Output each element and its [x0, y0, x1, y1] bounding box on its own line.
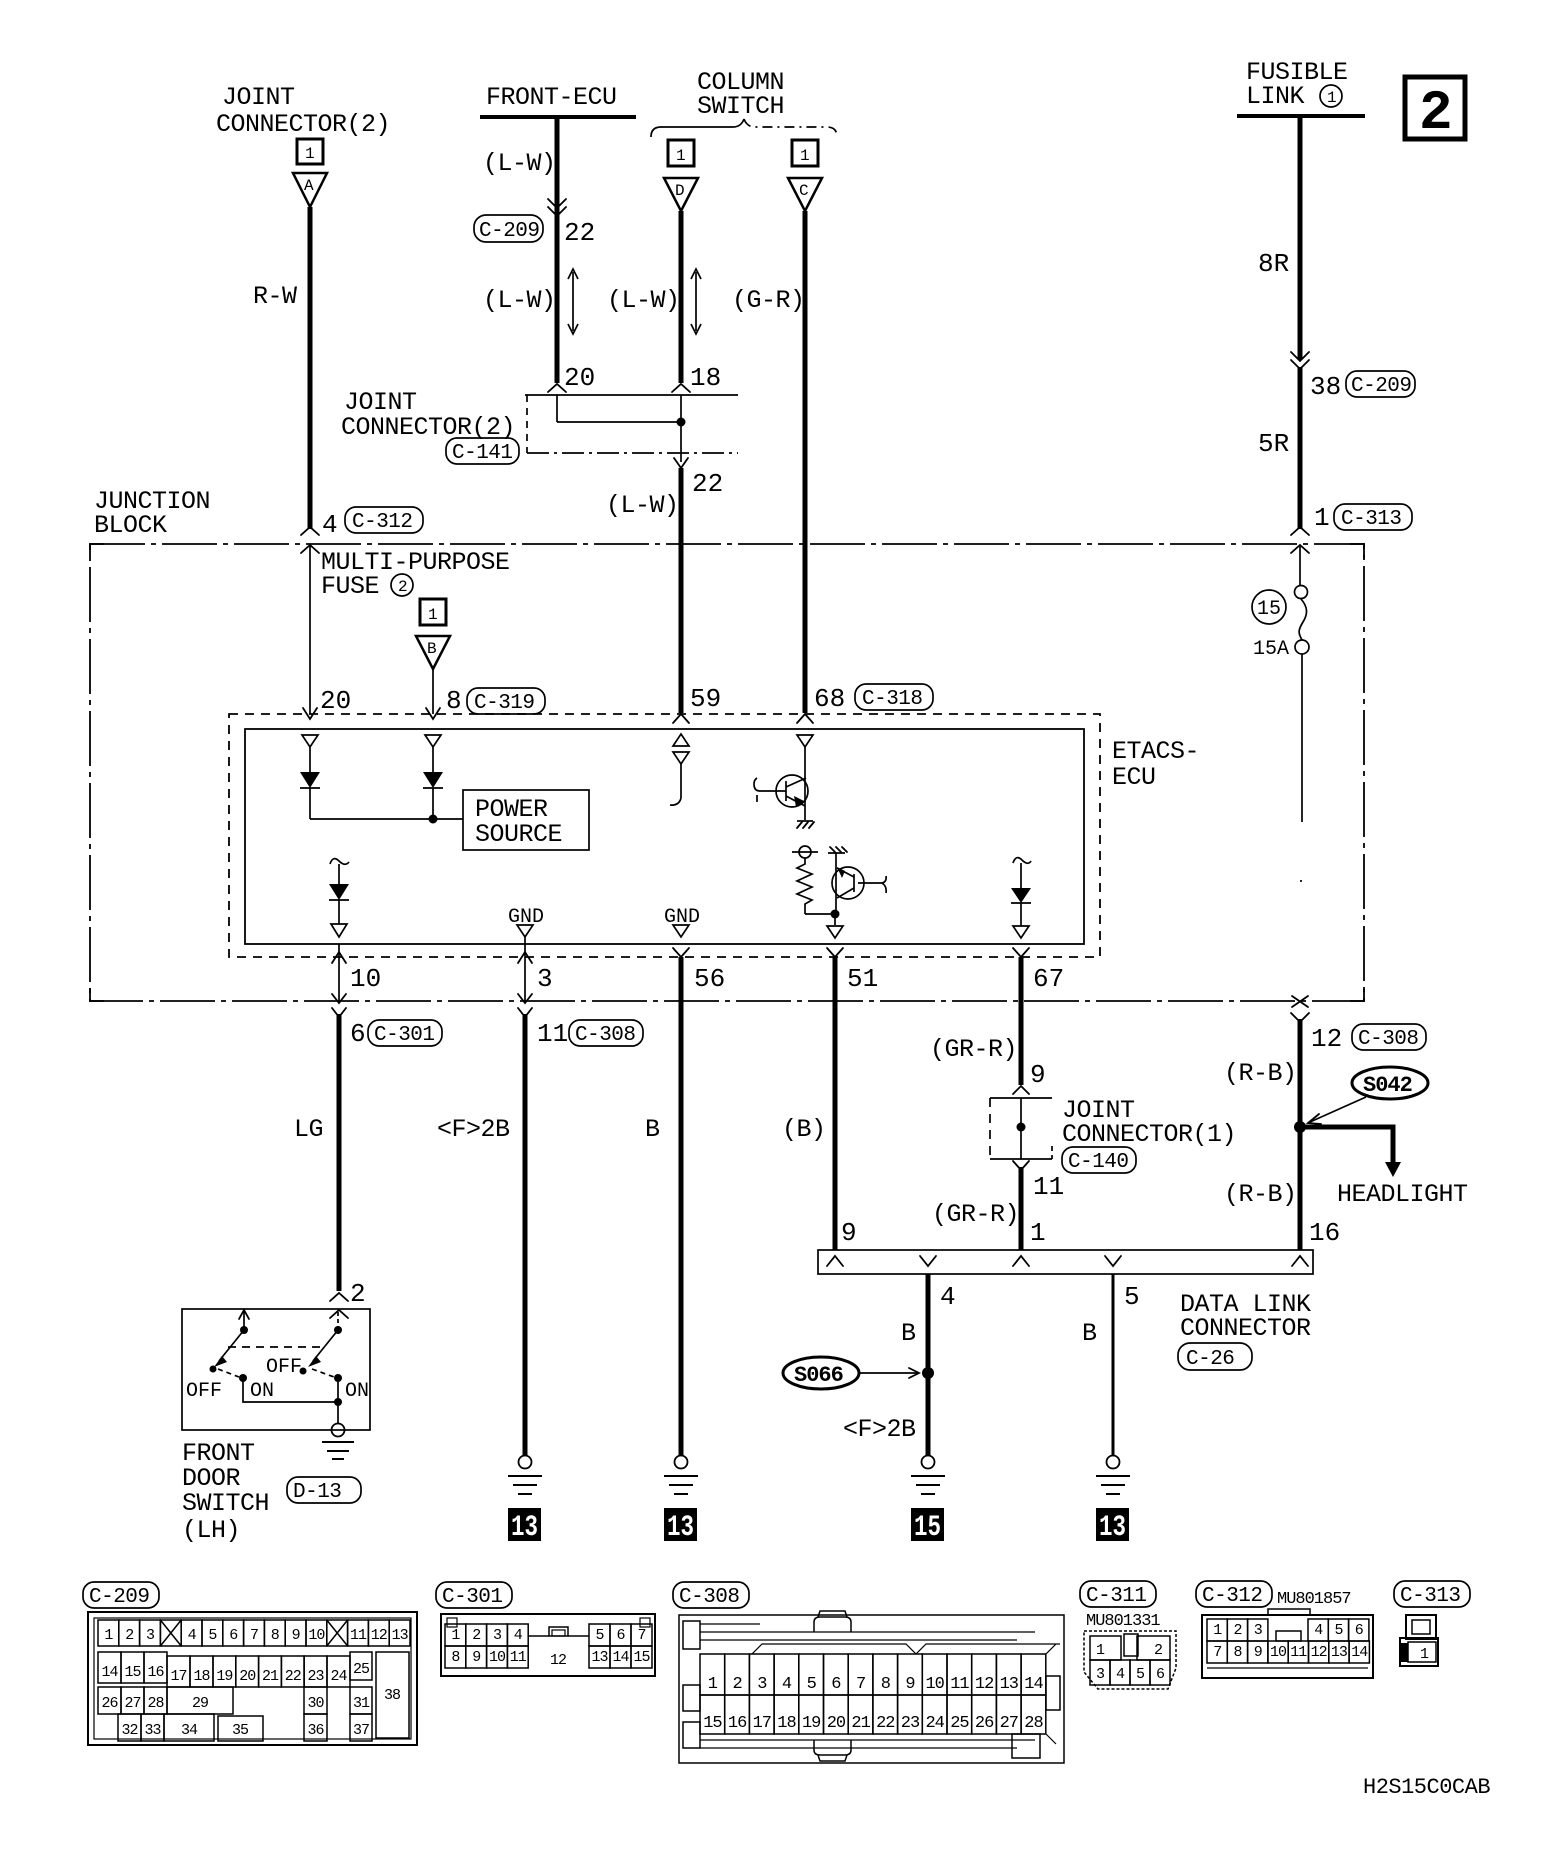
pin 8 arrow into ETACS — [426, 708, 440, 719]
circled 2 — [391, 574, 413, 596]
svg-text:1: 1 — [1213, 1622, 1222, 1639]
svg-text:3: 3 — [1254, 1622, 1263, 1639]
joint connector C-141 outline — [525, 394, 738, 396]
svg-text:4: 4 — [1116, 1666, 1125, 1683]
svg-text:MU801857: MU801857 — [1277, 1590, 1351, 1609]
right ON contact — [334, 1374, 342, 1382]
svg-text:C-209: C-209 — [89, 1586, 150, 1609]
svg-text:15: 15 — [703, 1714, 722, 1733]
diode D3 with hook — [330, 859, 349, 865]
svg-text:8: 8 — [1233, 1644, 1242, 1661]
pin 67 wire — [1013, 948, 1029, 957]
SEC:TOP — [216, 58, 1465, 713]
svg-text:ON: ON — [345, 1380, 369, 1403]
wire inside C-141 from pin 20 — [556, 395, 558, 422]
svg-text:5: 5 — [1136, 1666, 1145, 1683]
splice junction dot — [1294, 1121, 1306, 1133]
svg-text:4: 4 — [782, 1675, 792, 1694]
svg-text:2: 2 — [398, 578, 408, 596]
right OFF dashed contact — [312, 1369, 334, 1377]
wire 8R from fusible link — [1298, 116, 1303, 360]
svg-text:B: B — [645, 1115, 660, 1144]
svg-text:31: 31 — [353, 1695, 370, 1712]
svg-text:C-140: C-140 — [1068, 1151, 1129, 1174]
svg-text:9: 9 — [841, 1218, 857, 1248]
svg-text:14: 14 — [101, 1664, 118, 1681]
svg-text:11: 11 — [1290, 1644, 1307, 1661]
svg-text:6: 6 — [1355, 1622, 1364, 1639]
svg-text:OFF: OFF — [266, 1356, 302, 1379]
ground symbol pin 11 wire — [519, 1456, 532, 1469]
ground page ref 15 — [911, 1508, 944, 1541]
circled 1 after LINK — [1320, 85, 1342, 107]
ground page ref 13 — [508, 1508, 541, 1541]
svg-text:10: 10 — [350, 964, 381, 994]
wire R-W inside junction block down to ETACS pin 20 — [309, 545, 311, 714]
svg-text:SWITCH: SWITCH — [697, 92, 784, 121]
svg-text:7: 7 — [856, 1675, 865, 1694]
svg-text:33: 33 — [144, 1722, 161, 1739]
svg-text:(LH): (LH) — [182, 1516, 240, 1545]
junction dot in C-141 — [677, 418, 686, 427]
svg-text:2: 2 — [1233, 1622, 1241, 1639]
svg-text:28: 28 — [1024, 1714, 1043, 1733]
diode D1 — [309, 747, 311, 772]
svg-text:(L-W): (L-W) — [606, 491, 679, 520]
svg-text:29: 29 — [192, 1695, 208, 1712]
svg-text:CONNECTOR: CONNECTOR — [1180, 1314, 1311, 1343]
wire L-W from D — [679, 211, 684, 383]
left OFF dashed contact — [218, 1369, 239, 1377]
svg-text:11: 11 — [950, 1675, 969, 1694]
svg-text:CONNECTOR(1): CONNECTOR(1) — [1062, 1120, 1236, 1149]
svg-text:ECU: ECU — [1112, 763, 1156, 792]
svg-text:13: 13 — [1000, 1675, 1019, 1694]
svg-text:C-308: C-308 — [575, 1024, 636, 1047]
svg-text:28: 28 — [147, 1695, 164, 1712]
svg-text:B: B — [901, 1319, 916, 1348]
svg-text:SOURCE: SOURCE — [475, 820, 562, 849]
svg-text:27: 27 — [124, 1695, 140, 1712]
junction block outline — [90, 544, 1364, 1001]
svg-text:B: B — [1082, 1319, 1097, 1348]
SEC:SWITCH — [182, 1279, 370, 1545]
svg-text:C-141: C-141 — [452, 442, 513, 465]
svg-text:13: 13 — [1099, 1511, 1126, 1545]
svg-text:23: 23 — [307, 1668, 324, 1685]
svg-text:(GR-R): (GR-R) — [930, 1035, 1017, 1064]
svg-text:ETACS-: ETACS- — [1112, 737, 1199, 766]
svg-text:23: 23 — [901, 1714, 920, 1733]
connector C triangle — [788, 178, 822, 211]
wire R-B from 12 to data link — [1298, 1019, 1303, 1250]
svg-text:3: 3 — [146, 1627, 155, 1644]
svg-text:9: 9 — [292, 1627, 300, 1644]
svg-text:C-318: C-318 — [862, 688, 923, 711]
svg-text:C-209: C-209 — [1351, 375, 1412, 398]
bus wire inside C-141 — [557, 421, 681, 423]
svg-text:LG: LG — [294, 1115, 323, 1144]
svg-text:59: 59 — [690, 684, 721, 714]
svg-text:8: 8 — [271, 1627, 280, 1644]
internal bus to power source — [310, 818, 463, 820]
svg-text:14: 14 — [612, 1649, 629, 1666]
svg-text:C-313: C-313 — [1400, 1585, 1461, 1608]
connector pinout C-308 — [673, 1582, 1064, 1763]
svg-text:15: 15 — [914, 1511, 941, 1545]
svg-text:5: 5 — [1334, 1622, 1343, 1639]
data link connector bar — [818, 1250, 1313, 1274]
svg-text:19: 19 — [216, 1668, 232, 1685]
joint connector (1) C-140 box — [990, 1098, 1052, 1159]
svg-text:C-308: C-308 — [679, 1586, 740, 1609]
svg-text:13: 13 — [591, 1649, 608, 1666]
SEC:LOWER — [294, 1019, 1468, 1545]
svg-text:(G-R): (G-R) — [732, 286, 805, 315]
S066 splice oval — [783, 1357, 859, 1389]
left pole arrow up — [243, 1312, 245, 1330]
svg-text:5R: 5R — [1258, 429, 1289, 459]
svg-text:16: 16 — [1309, 1218, 1340, 1248]
left ON contact — [239, 1374, 247, 1382]
svg-text:12: 12 — [975, 1675, 993, 1694]
svg-text:10: 10 — [925, 1675, 944, 1694]
wire from B down to ETACS pin 8 — [432, 669, 434, 714]
svg-text:15: 15 — [124, 1664, 141, 1681]
svg-text:1: 1 — [800, 147, 810, 165]
svg-text:12: 12 — [1311, 1644, 1327, 1661]
svg-text:19: 19 — [802, 1714, 821, 1733]
svg-text:H2S15C0CAB: H2S15C0CAB — [1363, 1775, 1490, 1800]
pin 11 C-308 exit at junction block bottom — [518, 994, 532, 1017]
svg-text:26: 26 — [101, 1695, 118, 1712]
svg-text:C-312: C-312 — [352, 511, 413, 534]
svg-text:C-308: C-308 — [1358, 1028, 1419, 1051]
svg-text:25: 25 — [950, 1714, 969, 1733]
svg-text:(L-W): (L-W) — [483, 149, 556, 178]
svg-text:13: 13 — [511, 1511, 538, 1545]
Q2 chassis ground at top — [828, 852, 845, 854]
front door switch box — [182, 1309, 370, 1430]
connector crossing 1 C-313 at junction block top — [1291, 527, 1309, 553]
svg-text:7: 7 — [1213, 1644, 1221, 1661]
svg-text:C-301: C-301 — [442, 1586, 503, 1609]
svg-text:22: 22 — [876, 1714, 894, 1733]
svg-text:20: 20 — [239, 1668, 256, 1685]
svg-text:9: 9 — [905, 1675, 915, 1694]
transistor Q1 — [776, 775, 808, 807]
diode D4 with hook — [1013, 858, 1031, 864]
connector A terminal box — [297, 139, 323, 164]
svg-text:3: 3 — [1096, 1666, 1105, 1683]
svg-text:2: 2 — [732, 1675, 741, 1694]
right pole wire from pin 2 — [337, 1312, 339, 1330]
svg-text:2: 2 — [1154, 1642, 1162, 1659]
wire from ON contacts to common — [243, 1378, 338, 1402]
svg-text:56: 56 — [694, 964, 725, 994]
svg-text:25: 25 — [353, 1661, 370, 1678]
wire GR-R lower to data link — [1019, 1167, 1024, 1250]
svg-text:JOINT: JOINT — [222, 83, 295, 112]
svg-text:2: 2 — [472, 1627, 480, 1644]
double-ended arrow beside L-W wire — [568, 269, 578, 334]
page number 2 box — [1405, 77, 1465, 139]
svg-text:(L-W): (L-W) — [607, 286, 680, 315]
svg-text:(R-B): (R-B) — [1224, 1180, 1297, 1209]
svg-text:C-26: C-26 — [1186, 1348, 1234, 1371]
svg-text:36: 36 — [307, 1722, 324, 1739]
svg-text:(GR-R): (GR-R) — [932, 1200, 1019, 1229]
svg-text:13: 13 — [1331, 1644, 1348, 1661]
pin 3 wire — [524, 937, 526, 1001]
svg-text:5: 5 — [807, 1675, 817, 1694]
pin 59 internal symbols — [673, 734, 689, 746]
svg-text:<F>2B: <F>2B — [437, 1115, 510, 1144]
svg-text:14: 14 — [1351, 1644, 1368, 1661]
connector C-209 crossing on wire — [548, 199, 566, 216]
arrow out of C-141 — [674, 458, 688, 468]
power source box — [463, 790, 589, 850]
FRONT-ECU bus bar — [480, 115, 636, 119]
svg-text:6: 6 — [831, 1675, 841, 1694]
svg-text:(L-W): (L-W) — [483, 286, 556, 315]
pin 68 chevron — [797, 714, 813, 723]
svg-text:<F>2B: <F>2B — [843, 1415, 916, 1444]
svg-text:15: 15 — [1257, 598, 1281, 621]
svg-text:20: 20 — [564, 363, 595, 393]
wire R-W from A down to junction block — [308, 207, 313, 529]
headlight branch wire — [1300, 1127, 1393, 1162]
SEC:C141 — [341, 388, 738, 713]
svg-text:35: 35 — [232, 1722, 249, 1739]
S042 splice oval — [1352, 1067, 1428, 1099]
splice dot on pin 4 wire — [922, 1367, 934, 1379]
arrow from S066 to splice — [858, 1372, 917, 1374]
svg-text:C-209: C-209 — [479, 220, 540, 243]
wire G-R from C down to ETACS pin 68 — [803, 211, 808, 713]
svg-text:5: 5 — [208, 1627, 217, 1644]
fuse circuit: wire from 1 C-313 to fuse — [1299, 545, 1301, 586]
svg-text:8: 8 — [881, 1675, 891, 1694]
svg-text:18: 18 — [690, 363, 721, 393]
wire from fuse down (faded in scan) — [1301, 654, 1303, 822]
svg-text:1: 1 — [428, 606, 438, 624]
svg-text:9: 9 — [472, 1649, 480, 1666]
svg-text:15: 15 — [633, 1649, 650, 1666]
wire L-W from FRONT-ECU — [555, 117, 560, 383]
svg-text:32: 32 — [121, 1722, 137, 1739]
svg-text:27: 27 — [1000, 1714, 1018, 1733]
ETACS-ECU inner solid box — [245, 729, 1084, 944]
svg-text:17: 17 — [170, 1668, 186, 1685]
svg-text:38: 38 — [384, 1687, 401, 1704]
svg-text:22: 22 — [564, 218, 595, 248]
svg-text:3: 3 — [493, 1627, 502, 1644]
double-ended arrow beside D wire — [691, 269, 701, 334]
connector C-209 crossing (38) — [1291, 352, 1309, 369]
svg-text:C-312: C-312 — [1202, 1585, 1263, 1608]
svg-text:BLOCK: BLOCK — [94, 511, 167, 540]
svg-text:68: 68 — [814, 684, 845, 714]
circled 15 fuse number — [1252, 590, 1286, 624]
svg-text:D: D — [675, 182, 685, 200]
crossing at junction block bottom to pin 12 — [1292, 996, 1308, 1007]
connector pinout C-312 — [1196, 1581, 1373, 1678]
ETACS-ECU dashed box — [229, 714, 1100, 957]
left pole moving contact — [219, 1330, 244, 1361]
svg-text:24: 24 — [330, 1668, 347, 1685]
svg-text:7: 7 — [250, 1627, 258, 1644]
connector D terminal box — [668, 140, 694, 166]
connector D triangle — [664, 178, 698, 211]
ground symbol pin 5 wire — [1107, 1456, 1120, 1469]
svg-text:1: 1 — [1327, 89, 1337, 107]
ground page ref 13 — [1096, 1508, 1129, 1541]
svg-text:5: 5 — [595, 1627, 604, 1644]
svg-text:(B): (B) — [782, 1115, 826, 1144]
ground symbol pin 4 wire — [922, 1456, 935, 1469]
pin 51 wire — [827, 948, 843, 957]
svg-text:1: 1 — [451, 1627, 460, 1644]
svg-text:FUSE: FUSE — [321, 572, 379, 601]
svg-text:17: 17 — [753, 1714, 771, 1733]
svg-text:3: 3 — [537, 964, 553, 994]
pin 20 internal triangle — [302, 735, 318, 747]
svg-text:2: 2 — [1419, 81, 1453, 145]
svg-text:34: 34 — [181, 1722, 198, 1739]
svg-text:1: 1 — [305, 145, 315, 163]
svg-text:18: 18 — [777, 1714, 796, 1733]
connector pinout C-311 — [1080, 1581, 1176, 1689]
mechanical link dashed line — [228, 1346, 320, 1348]
svg-text:10: 10 — [308, 1627, 325, 1644]
svg-text:22: 22 — [285, 1668, 301, 1685]
right pole moving contact — [313, 1330, 338, 1361]
svg-text:B: B — [427, 640, 437, 658]
switch ground lines — [322, 1441, 354, 1443]
svg-text:16: 16 — [147, 1664, 164, 1681]
pin 56 wire — [673, 948, 689, 957]
svg-text:D-13: D-13 — [293, 1481, 341, 1504]
svg-text:A: A — [304, 177, 314, 195]
svg-text:14: 14 — [1024, 1675, 1043, 1694]
arrow from S042 to splice — [1310, 1097, 1366, 1122]
svg-text:MU801331: MU801331 — [1086, 1612, 1160, 1631]
wire from dot down through C-141 — [680, 395, 682, 462]
svg-text:S042: S042 — [1363, 1073, 1412, 1098]
svg-text:10: 10 — [1270, 1644, 1287, 1661]
svg-text:30: 30 — [307, 1695, 324, 1712]
svg-text:8: 8 — [446, 686, 462, 716]
switch ground circle on box edge — [332, 1424, 345, 1437]
svg-text:22: 22 — [692, 469, 723, 499]
svg-text:4: 4 — [322, 510, 338, 540]
connector A triangle — [293, 173, 327, 207]
svg-text:20: 20 — [827, 1714, 846, 1733]
svg-text:2: 2 — [350, 1279, 366, 1309]
svg-text:LINK: LINK — [1246, 82, 1305, 111]
pin 8 internal triangle — [425, 735, 441, 747]
svg-text:15A: 15A — [1253, 638, 1289, 661]
svg-text:6: 6 — [229, 1627, 238, 1644]
svg-text:6: 6 — [350, 1019, 366, 1049]
svg-text:24: 24 — [925, 1714, 944, 1733]
svg-text:13: 13 — [392, 1627, 409, 1644]
svg-text:ON: ON — [250, 1380, 274, 1403]
svg-text:11: 11 — [537, 1019, 568, 1049]
svg-text:4: 4 — [1314, 1622, 1323, 1639]
pin 59 chevron — [673, 714, 689, 723]
pin 10 wire and arrows — [338, 944, 340, 1001]
SEC:ETACS — [229, 714, 1199, 1455]
svg-text:11: 11 — [350, 1627, 367, 1644]
svg-text:CONNECTOR(2): CONNECTOR(2) — [216, 110, 390, 139]
svg-text:C-301: C-301 — [374, 1024, 435, 1047]
transistor Q2 — [832, 867, 864, 899]
svg-text:R-W: R-W — [253, 282, 297, 311]
svg-text:2: 2 — [125, 1627, 133, 1644]
svg-text:6: 6 — [616, 1627, 625, 1644]
brace under column switch — [651, 119, 744, 137]
pin 51 internal triangle — [834, 914, 836, 925]
svg-text:S066: S066 — [794, 1363, 843, 1388]
svg-text:12: 12 — [371, 1627, 387, 1644]
fuse symbol: two circles with S-curve — [1295, 586, 1308, 599]
svg-text:13: 13 — [667, 1511, 694, 1545]
svg-text:9: 9 — [1030, 1060, 1046, 1090]
fuse B triangle — [416, 636, 450, 669]
connector pinout C-301 — [436, 1582, 655, 1676]
svg-text:4: 4 — [940, 1282, 956, 1312]
svg-text:51: 51 — [847, 964, 878, 994]
wire L-W down to junction block — [679, 468, 684, 713]
svg-text:9: 9 — [1254, 1644, 1262, 1661]
svg-text:37: 37 — [353, 1722, 369, 1739]
svg-text:10: 10 — [489, 1649, 506, 1666]
svg-text:3: 3 — [757, 1675, 767, 1694]
svg-text:FRONT-ECU: FRONT-ECU — [486, 83, 617, 112]
svg-text:8: 8 — [451, 1649, 460, 1666]
svg-text:4: 4 — [188, 1627, 197, 1644]
Q1 chassis ground — [797, 820, 813, 822]
svg-text:1: 1 — [1096, 1642, 1105, 1659]
svg-text:OFF: OFF — [186, 1380, 222, 1403]
svg-text:6: 6 — [1156, 1666, 1165, 1683]
SEC:JB — [90, 487, 1426, 1054]
svg-text:SWITCH: SWITCH — [182, 1489, 269, 1518]
connector crossing 4 C-312 at junction block top — [301, 527, 319, 553]
svg-text:26: 26 — [975, 1714, 994, 1733]
ground page ref 13 — [664, 1508, 697, 1541]
svg-text:12: 12 — [550, 1652, 566, 1669]
connector C terminal box — [792, 140, 818, 166]
chevron where L-W enters C-141 — [548, 384, 566, 392]
pin 20 arrow into ETACS — [303, 708, 317, 719]
svg-text:8R: 8R — [1258, 249, 1289, 279]
fuse B terminal box — [420, 599, 446, 625]
svg-text:1: 1 — [1420, 1646, 1429, 1663]
fusible link bus bar — [1237, 114, 1365, 118]
svg-text:C-319: C-319 — [474, 692, 535, 715]
svg-text:C-313: C-313 — [1341, 508, 1402, 531]
resistor R1 — [792, 851, 818, 853]
diode D2 — [432, 747, 434, 772]
connector pinout C-209 — [83, 1582, 417, 1745]
svg-text:1: 1 — [676, 147, 686, 165]
svg-text:38: 38 — [1310, 372, 1341, 402]
connector pinout C-313 — [1394, 1581, 1470, 1666]
svg-text:C: C — [799, 182, 809, 200]
